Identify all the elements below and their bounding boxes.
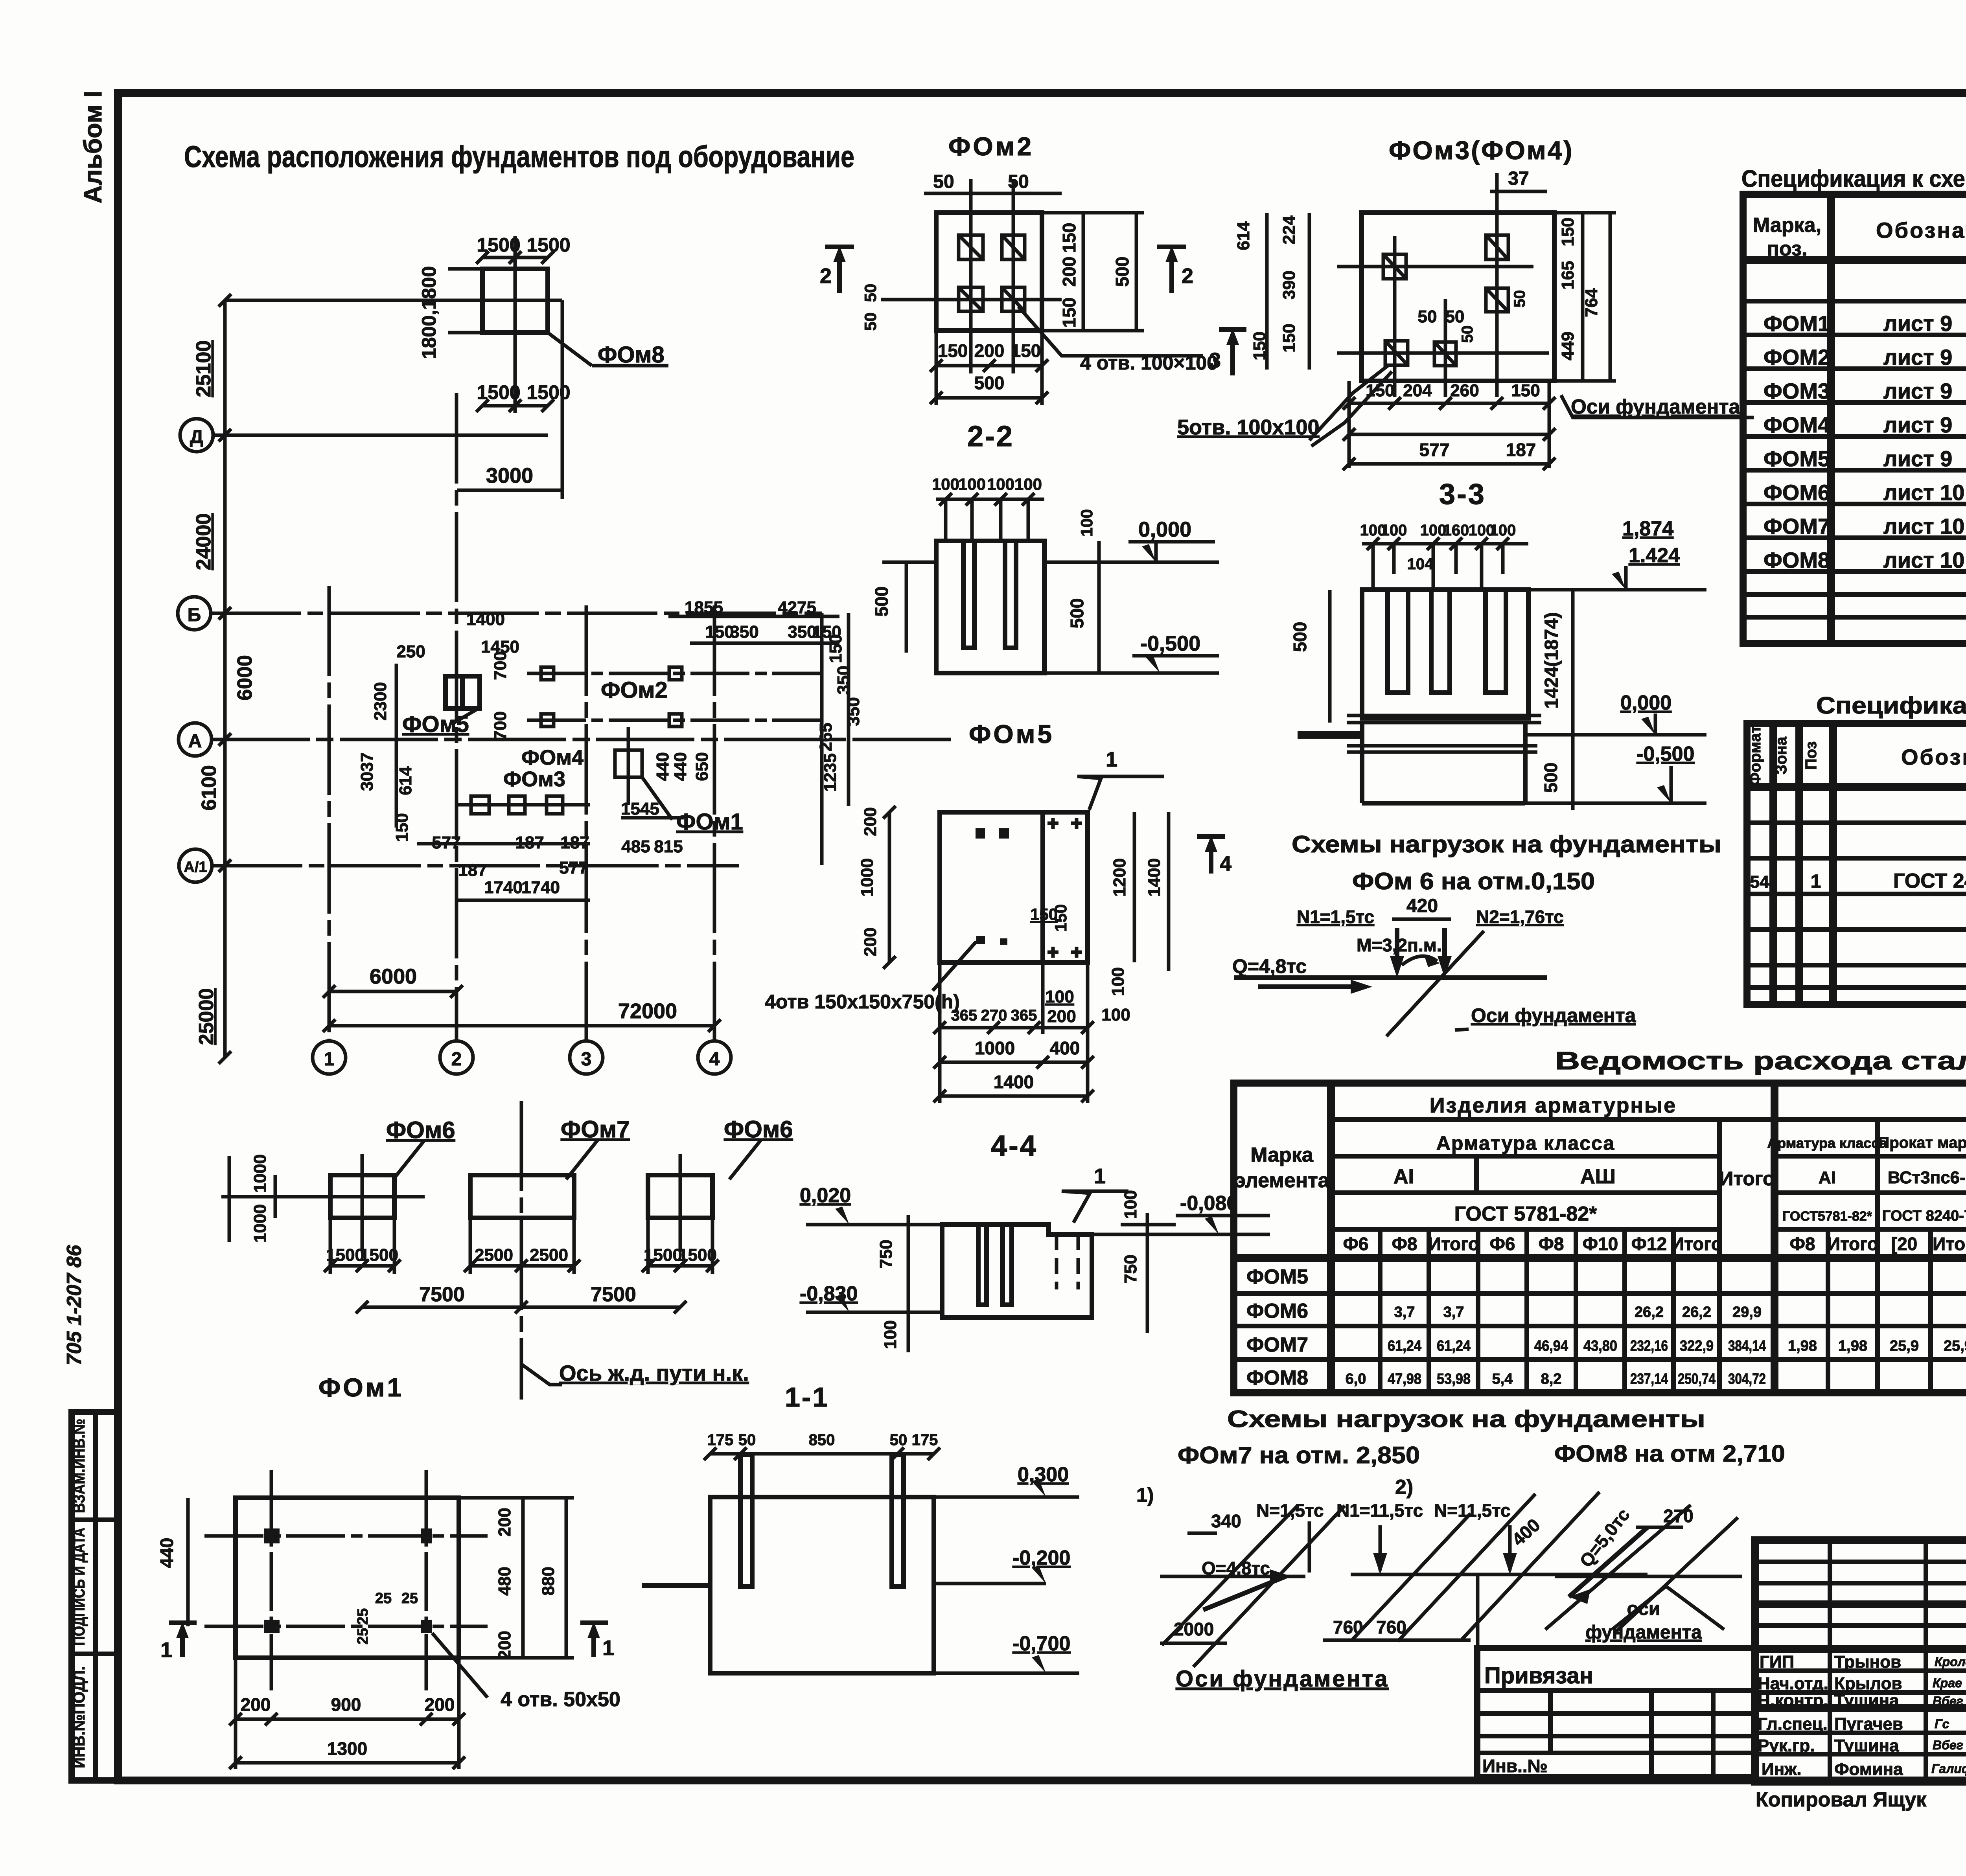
svg-text:100: 100 [1490, 522, 1516, 539]
svg-text:46,94: 46,94 [1534, 1338, 1568, 1354]
svg-text:24000: 24000 [192, 513, 215, 570]
svg-text:Ф12: Ф12 [1631, 1234, 1667, 1254]
svg-text:50: 50 [738, 1431, 756, 1449]
svg-text:1,98: 1,98 [1838, 1338, 1867, 1354]
svg-text:187: 187 [458, 861, 487, 880]
svg-text:100: 100 [1045, 987, 1074, 1006]
svg-text:365: 365 [1011, 1007, 1037, 1024]
svg-text:Ведомость расхода стали на: Ведомость расхода стали на элемент,кг [1555, 1047, 1966, 1075]
svg-text:оси: оси [1627, 1598, 1660, 1619]
svg-text:Ось ж.д. пути н.к.: Ось ж.д. пути н.к. [559, 1361, 749, 1385]
svg-text:Итого: Итого [1933, 1234, 1966, 1254]
svg-text:ФОм2: ФОм2 [948, 132, 1034, 161]
svg-text:2: 2 [820, 264, 832, 288]
svg-text:200: 200 [1047, 1007, 1076, 1026]
svg-text:7500: 7500 [419, 1283, 465, 1306]
svg-text:1: 1 [324, 1049, 335, 1070]
svg-text:ВЗАМ.ИНВ.№: ВЗАМ.ИНВ.№ [70, 1419, 88, 1513]
svg-text:400: 400 [1050, 1038, 1080, 1058]
svg-text:61,24: 61,24 [1388, 1338, 1421, 1354]
svg-text:лист 9: лист 9 [1883, 446, 1952, 471]
svg-text:237,14: 237,14 [1630, 1371, 1668, 1387]
svg-text:Ф8: Ф8 [1790, 1234, 1815, 1254]
svg-text:4отв 150х150х750(h): 4отв 150х150х750(h) [765, 991, 960, 1013]
svg-text:2500: 2500 [475, 1245, 513, 1265]
svg-text:Марка,: Марка, [1753, 214, 1821, 237]
svg-text:лист 9: лист 9 [1883, 412, 1952, 437]
svg-text:150: 150 [826, 634, 845, 663]
svg-text:6000: 6000 [370, 965, 417, 988]
svg-text:200: 200 [495, 1631, 514, 1659]
svg-text:ФОм6: ФОм6 [724, 1116, 793, 1142]
svg-text:100: 100 [1101, 1005, 1130, 1024]
svg-text:лист 10: лист 10 [1883, 480, 1964, 505]
svg-text:-0,830: -0,830 [800, 1282, 858, 1305]
svg-text:Вбег: Вбег [1933, 1694, 1963, 1708]
svg-text:100: 100 [1108, 967, 1128, 996]
svg-text:3037: 3037 [357, 752, 377, 791]
svg-text:ФОМ3: ФОМ3 [1764, 379, 1830, 403]
svg-text:ВСт3пс6-1: ВСт3пс6-1 [1888, 1168, 1966, 1187]
svg-text:420: 420 [1406, 896, 1438, 916]
svg-text:37: 37 [1508, 168, 1529, 189]
svg-text:700: 700 [491, 651, 510, 680]
svg-text:3,7: 3,7 [1394, 1304, 1415, 1321]
svg-text:Инв..№: Инв..№ [1482, 1756, 1548, 1776]
svg-text:26,2: 26,2 [1682, 1304, 1711, 1321]
svg-text:150: 150 [1279, 324, 1299, 352]
svg-text:ГОСТ 5781-82*: ГОСТ 5781-82* [1454, 1203, 1598, 1225]
svg-text:Оси фундамента: Оси фундамента [1571, 395, 1740, 418]
svg-text:485: 485 [621, 837, 650, 856]
svg-text:1424(1874): 1424(1874) [1541, 612, 1562, 709]
svg-text:8,2: 8,2 [1541, 1371, 1562, 1387]
svg-text:850: 850 [809, 1431, 835, 1449]
svg-text:2: 2 [451, 1049, 462, 1070]
svg-text:Итого: Итого [1827, 1234, 1878, 1254]
svg-text:4-4: 4-4 [991, 1129, 1038, 1162]
svg-text:Q=4,8тс: Q=4,8тс [1232, 955, 1307, 977]
svg-text:ФОм 6 на отм.0,150: ФОм 6 на отм.0,150 [1352, 868, 1595, 894]
svg-text:43,80: 43,80 [1583, 1338, 1617, 1354]
svg-text:Ф6: Ф6 [1343, 1234, 1369, 1254]
svg-text:N1=1,5тс: N1=1,5тс [1297, 907, 1374, 927]
svg-text:ФОм3: ФОм3 [503, 767, 565, 791]
svg-text:500: 500 [871, 587, 892, 617]
svg-text:-0,700: -0,700 [1012, 1632, 1070, 1655]
svg-text:1000: 1000 [250, 1204, 270, 1243]
svg-text:250,74: 250,74 [1678, 1371, 1716, 1387]
svg-text:4: 4 [709, 1049, 720, 1070]
svg-text:384,14: 384,14 [1728, 1338, 1766, 1354]
svg-text:ФОм1: ФОм1 [676, 809, 743, 835]
svg-text:Обозначение: Обозначение [1901, 745, 1966, 769]
svg-text:3000: 3000 [486, 464, 533, 487]
svg-text:1.424: 1.424 [1629, 544, 1680, 567]
svg-text:1: 1 [1106, 748, 1117, 771]
svg-text:200: 200 [425, 1694, 455, 1715]
svg-text:760: 760 [1376, 1617, 1406, 1637]
svg-text:150: 150 [1511, 381, 1540, 400]
svg-text:175: 175 [707, 1431, 734, 1449]
svg-text:25,9: 25,9 [1944, 1338, 1966, 1354]
svg-text:29,9: 29,9 [1732, 1304, 1762, 1321]
svg-text:0,300: 0,300 [1018, 1463, 1069, 1486]
svg-text:Поз: Поз [1802, 741, 1820, 770]
svg-text:260: 260 [1450, 381, 1479, 400]
svg-text:Привязан: Привязан [1484, 1663, 1593, 1688]
svg-text:5,4: 5,4 [1492, 1371, 1513, 1387]
svg-text:Гл.спец.: Гл.спец. [1758, 1714, 1828, 1734]
svg-text:1,874: 1,874 [1622, 517, 1673, 540]
svg-text:Ф6: Ф6 [1490, 1234, 1515, 1254]
svg-text:5отв. 100х100: 5отв. 100х100 [1177, 416, 1320, 439]
svg-text:650: 650 [692, 752, 712, 781]
svg-text:-0,500: -0,500 [1636, 743, 1694, 765]
svg-text:Тушина: Тушина [1834, 1736, 1899, 1755]
svg-text:187: 187 [1506, 440, 1536, 460]
svg-text:1740: 1740 [484, 878, 523, 897]
svg-text:-0,080: -0,080 [1180, 1192, 1238, 1215]
svg-text:-0,500: -0,500 [1140, 632, 1200, 655]
svg-text:АШ: АШ [1580, 1165, 1616, 1188]
svg-text:50: 50 [861, 284, 880, 302]
svg-text:Схемы нагрузок на фундамент: Схемы нагрузок на фундаменты [1227, 1406, 1705, 1432]
svg-text:322,9: 322,9 [1680, 1338, 1714, 1354]
svg-text:ГОСТ 24379.1-80: ГОСТ 24379.1-80 [1893, 870, 1966, 892]
svg-text:Арматура класса: Арматура класса [1436, 1132, 1615, 1154]
svg-text:N=1,5тс: N=1,5тс [1256, 1500, 1324, 1521]
svg-text:ИНВ.№ПОДЛ.: ИНВ.№ПОДЛ. [70, 1666, 88, 1768]
svg-text:Схема расположения фундаментов: Схема расположения фундаментов под обору… [184, 140, 854, 174]
svg-text:100: 100 [881, 1320, 900, 1349]
svg-text:1,98: 1,98 [1788, 1338, 1817, 1354]
svg-text:ФОм2: ФОм2 [601, 677, 668, 703]
svg-text:Кроле: Кроле [1935, 1655, 1966, 1669]
svg-text:25: 25 [355, 1628, 371, 1644]
svg-text:2): 2) [1395, 1476, 1413, 1499]
svg-text:Схемы нагрузок на фундаменты: Схемы нагрузок на фундаменты [1292, 831, 1721, 857]
svg-text:224: 224 [1279, 215, 1299, 245]
svg-text:750: 750 [1121, 1254, 1140, 1283]
svg-text:3: 3 [1209, 349, 1221, 372]
svg-text:6000: 6000 [234, 655, 256, 701]
svg-text:Изделия арматурные: Изделия арматурные [1430, 1094, 1677, 1117]
svg-text:700: 700 [491, 711, 510, 740]
svg-text:25,9: 25,9 [1890, 1338, 1919, 1354]
svg-text:500: 500 [1541, 763, 1561, 793]
svg-text:лист 10: лист 10 [1883, 548, 1964, 572]
svg-text:Пугачев: Пугачев [1834, 1714, 1903, 1734]
svg-text:ФОМ6: ФОМ6 [1764, 480, 1830, 505]
svg-text:1: 1 [1094, 1164, 1106, 1188]
svg-text:Альбом I: Альбом I [79, 91, 107, 204]
svg-text:50: 50 [890, 1431, 908, 1449]
svg-text:165: 165 [1558, 261, 1578, 289]
svg-text:26,2: 26,2 [1635, 1304, 1664, 1321]
svg-text:ФОМ8: ФОМ8 [1246, 1367, 1308, 1389]
svg-text:25100: 25100 [192, 340, 215, 397]
svg-text:ФОм8: ФОм8 [598, 342, 665, 368]
svg-text:ФОМ2: ФОМ2 [1764, 345, 1830, 370]
svg-text:100: 100 [1121, 1190, 1140, 1219]
svg-text:50: 50 [933, 171, 954, 192]
svg-text:1-1: 1-1 [785, 1382, 829, 1413]
svg-text:150: 150 [1059, 298, 1079, 328]
svg-text:Зона: Зона [1773, 736, 1790, 774]
svg-text:232,16: 232,16 [1630, 1338, 1668, 1354]
svg-text:Инж.: Инж. [1762, 1760, 1802, 1779]
svg-text:104: 104 [1407, 555, 1434, 573]
svg-text:ФОм1: ФОм1 [318, 1373, 404, 1402]
svg-text:50: 50 [1511, 290, 1528, 308]
svg-text:577: 577 [559, 858, 588, 877]
svg-text:лист 9: лист 9 [1883, 311, 1952, 336]
svg-text:200: 200 [861, 807, 880, 836]
svg-text:304,72: 304,72 [1728, 1371, 1766, 1387]
svg-text:500: 500 [974, 373, 1005, 393]
svg-text:Спецификация элементов монолит: Спецификация элементов монолитной констр… [1816, 692, 1966, 719]
svg-text:880: 880 [539, 1567, 558, 1595]
svg-text:Нач.отд.: Нач.отд. [1758, 1674, 1828, 1693]
svg-text:200: 200 [1059, 257, 1079, 287]
svg-text:350: 350 [730, 622, 758, 642]
svg-text:N1=11,5тс: N1=11,5тс [1336, 1500, 1423, 1521]
svg-text:Вбег: Вбег [1933, 1738, 1963, 1752]
svg-text:Итого: Итого [1428, 1234, 1479, 1254]
svg-text:200: 200 [861, 927, 880, 956]
svg-text:Б: Б [188, 605, 201, 625]
svg-text:204: 204 [1403, 381, 1432, 400]
svg-text:900: 900 [331, 1694, 361, 1715]
svg-text:270: 270 [981, 1007, 1007, 1024]
svg-text:61,24: 61,24 [1437, 1338, 1471, 1354]
svg-text:25: 25 [401, 1590, 418, 1607]
svg-text:ФОм8 на отм 2,710: ФОм8 на отм 2,710 [1554, 1440, 1785, 1467]
svg-text:Ф8: Ф8 [1392, 1234, 1417, 1254]
svg-text:Н.контр.: Н.контр. [1758, 1691, 1828, 1710]
svg-text:100: 100 [958, 475, 986, 493]
svg-text:50: 50 [1459, 326, 1476, 343]
svg-text:лист 10: лист 10 [1883, 514, 1964, 539]
svg-text:[20: [20 [1891, 1234, 1917, 1254]
svg-text:Крае: Крае [1933, 1676, 1962, 1690]
svg-text:764: 764 [1582, 288, 1601, 317]
svg-text:1): 1) [1136, 1484, 1154, 1506]
svg-text:3-3: 3-3 [1439, 478, 1486, 510]
svg-text:750: 750 [876, 1240, 896, 1268]
svg-text:440: 440 [653, 752, 672, 781]
svg-text:1: 1 [602, 1636, 614, 1660]
svg-text:200: 200 [974, 340, 1005, 361]
svg-text:ПОДПИСЬ И ДАТА: ПОДПИСЬ И ДАТА [70, 1528, 88, 1646]
svg-text:340: 340 [1211, 1511, 1241, 1531]
svg-text:ФОм7 на отм. 2,850: ФОм7 на отм. 2,850 [1178, 1442, 1420, 1468]
svg-text:лист 9: лист 9 [1883, 379, 1952, 403]
svg-text:ФОМ5: ФОМ5 [1246, 1265, 1308, 1288]
svg-text:4275: 4275 [778, 598, 816, 617]
svg-text:2500: 2500 [530, 1245, 568, 1265]
svg-text:440: 440 [671, 752, 690, 781]
svg-text:ФОМ7: ФОМ7 [1764, 514, 1830, 539]
svg-text:ГИП: ГИП [1760, 1652, 1794, 1672]
svg-text:2-2: 2-2 [967, 420, 1014, 452]
svg-text:50: 50 [861, 313, 880, 331]
svg-text:47,98: 47,98 [1388, 1371, 1421, 1387]
svg-text:1855: 1855 [685, 598, 723, 617]
svg-text:25: 25 [375, 1590, 392, 1607]
svg-text:Марка: Марка [1250, 1144, 1314, 1166]
svg-text:N=11,5тс: N=11,5тс [1434, 1500, 1511, 1521]
svg-text:ГОСТ5781-82*: ГОСТ5781-82* [1782, 1209, 1872, 1224]
svg-text:0,000: 0,000 [1620, 692, 1671, 714]
svg-text:Рук.гр.: Рук.гр. [1758, 1736, 1815, 1755]
svg-text:3,7: 3,7 [1443, 1304, 1464, 1321]
svg-text:350: 350 [834, 666, 853, 694]
svg-text:0,000: 0,000 [1138, 518, 1191, 541]
svg-text:160: 160 [1443, 522, 1469, 539]
svg-text:100: 100 [1014, 475, 1042, 493]
svg-text:250: 250 [396, 642, 425, 661]
svg-text:АI: АI [1394, 1165, 1414, 1188]
svg-text:100: 100 [1420, 522, 1447, 539]
svg-text:2: 2 [1182, 264, 1193, 288]
svg-text:Д: Д [190, 427, 203, 447]
svg-text:элемента: элемента [1234, 1169, 1329, 1192]
svg-text:705 1-207 86: 705 1-207 86 [63, 1245, 86, 1366]
svg-text:Оси фундамента: Оси фундамента [1176, 1666, 1389, 1692]
svg-text:ФОм7: ФОм7 [561, 1116, 630, 1142]
svg-text:ГОСТ 8240-72: ГОСТ 8240-72 [1882, 1208, 1966, 1224]
svg-text:Тушина: Тушина [1834, 1691, 1899, 1710]
svg-text:200: 200 [495, 1508, 514, 1536]
svg-text:6,0: 6,0 [1346, 1371, 1366, 1387]
svg-text:Итого: Итого [1671, 1234, 1722, 1254]
svg-text:50: 50 [1008, 171, 1029, 192]
svg-text:Оси фундамента: Оси фундамента [1471, 1004, 1636, 1026]
svg-text:1300: 1300 [327, 1738, 367, 1759]
svg-text:0,020: 0,020 [800, 1184, 851, 1207]
svg-text:1000: 1000 [975, 1038, 1015, 1058]
svg-text:ФОМ7: ФОМ7 [1246, 1333, 1308, 1356]
svg-text:АI: АI [1819, 1168, 1836, 1187]
svg-text:ФОм5: ФОм5 [402, 712, 469, 737]
svg-text:200: 200 [241, 1694, 271, 1715]
svg-text:614: 614 [396, 766, 415, 795]
svg-text:Галиф: Галиф [1931, 1762, 1966, 1776]
svg-text:1000: 1000 [250, 1154, 270, 1193]
svg-text:449: 449 [1558, 331, 1578, 360]
svg-text:1: 1 [160, 1638, 172, 1662]
svg-text:390: 390 [1279, 270, 1299, 299]
svg-text:577: 577 [1419, 440, 1450, 460]
svg-text:53,98: 53,98 [1437, 1371, 1471, 1387]
svg-text:4: 4 [1220, 852, 1232, 875]
svg-text:Обозначение: Обозначение [1876, 218, 1966, 243]
svg-text:1400: 1400 [1145, 858, 1164, 897]
svg-text:1500: 1500 [526, 234, 570, 256]
svg-text:265: 265 [816, 723, 836, 751]
svg-text:54: 54 [1750, 872, 1769, 892]
svg-text:Гс: Гс [1935, 1717, 1949, 1731]
svg-text:350: 350 [844, 697, 863, 726]
svg-text:500: 500 [1290, 622, 1310, 652]
svg-text:Трынов: Трынов [1834, 1652, 1901, 1672]
svg-text:100: 100 [932, 475, 959, 493]
svg-text:150: 150 [1059, 223, 1079, 253]
svg-text:100: 100 [1077, 509, 1096, 537]
svg-text:Итого: Итого [1719, 1168, 1775, 1190]
svg-text:50: 50 [1418, 307, 1437, 326]
svg-text:1: 1 [1811, 871, 1821, 892]
svg-text:4 отв. 50х50: 4 отв. 50х50 [501, 1688, 620, 1711]
svg-text:3: 3 [581, 1049, 592, 1070]
svg-text:ФОм6: ФОм6 [386, 1117, 455, 1143]
svg-text:1500: 1500 [477, 234, 520, 256]
svg-text:50: 50 [1445, 307, 1465, 326]
svg-text:ФОМ6: ФОМ6 [1246, 1300, 1308, 1322]
svg-text:150: 150 [938, 340, 968, 361]
svg-text:ФОМ4: ФОМ4 [1764, 412, 1830, 437]
svg-text:Прокат марки: Прокат марки [1878, 1134, 1966, 1151]
svg-text:Крылов: Крылов [1834, 1674, 1902, 1693]
svg-text:Фомина: Фомина [1834, 1760, 1903, 1779]
svg-text:480: 480 [495, 1567, 514, 1595]
svg-text:150: 150 [1051, 904, 1070, 932]
svg-text:ФОм4: ФОм4 [521, 746, 584, 769]
svg-text:ФОМ8: ФОМ8 [1764, 548, 1830, 572]
svg-text:Ф10: Ф10 [1583, 1234, 1618, 1254]
svg-text:100: 100 [987, 475, 1014, 493]
svg-text:1400: 1400 [466, 610, 505, 629]
svg-text:Арматура класса: Арматура класса [1767, 1135, 1888, 1151]
svg-text:-0,200: -0,200 [1012, 1547, 1070, 1569]
svg-text:175: 175 [912, 1431, 938, 1449]
svg-text:7500: 7500 [591, 1283, 636, 1306]
svg-text:6100: 6100 [198, 765, 221, 811]
svg-text:Копировал Ящук: Копировал Ящук [1756, 1788, 1927, 1811]
svg-text:1545: 1545 [621, 799, 659, 818]
svg-text:лист 9: лист 9 [1883, 345, 1952, 370]
svg-text:N2=1,76тс: N2=1,76тс [1476, 907, 1564, 927]
svg-text:1500: 1500 [477, 381, 520, 403]
svg-text:500: 500 [1112, 257, 1132, 287]
svg-text:440: 440 [156, 1538, 177, 1568]
svg-text:А: А [188, 731, 202, 752]
svg-text:25000: 25000 [195, 988, 218, 1045]
svg-text:72000: 72000 [618, 999, 677, 1023]
svg-text:815: 815 [654, 837, 683, 856]
svg-text:Спецификация к схеме расположе: Спецификация к схеме расположения фундам… [1741, 166, 1966, 192]
svg-text:фундамента: фундамента [1585, 1622, 1702, 1643]
svg-text:Формат: Формат [1747, 725, 1764, 785]
svg-text:1200: 1200 [1110, 858, 1129, 897]
svg-text:1740: 1740 [521, 878, 560, 897]
svg-text:ФОМ5: ФОМ5 [1764, 446, 1830, 471]
svg-text:ФОм3(ФОм4): ФОм3(ФОм4) [1389, 136, 1574, 165]
svg-text:1800,1800: 1800,1800 [418, 266, 440, 359]
svg-text:ФОМ1: ФОМ1 [1764, 311, 1830, 336]
svg-text:Ф8: Ф8 [1539, 1234, 1564, 1254]
svg-text:4 отв. 100×100: 4 отв. 100×100 [1080, 352, 1218, 374]
svg-text:1400: 1400 [994, 1072, 1034, 1092]
svg-text:150: 150 [1011, 340, 1041, 361]
svg-text:150: 150 [1558, 217, 1578, 246]
svg-text:500: 500 [1067, 598, 1087, 629]
svg-text:614: 614 [1234, 221, 1253, 250]
svg-text:ФОм5: ФОм5 [969, 719, 1054, 749]
svg-text:1000: 1000 [858, 858, 877, 897]
